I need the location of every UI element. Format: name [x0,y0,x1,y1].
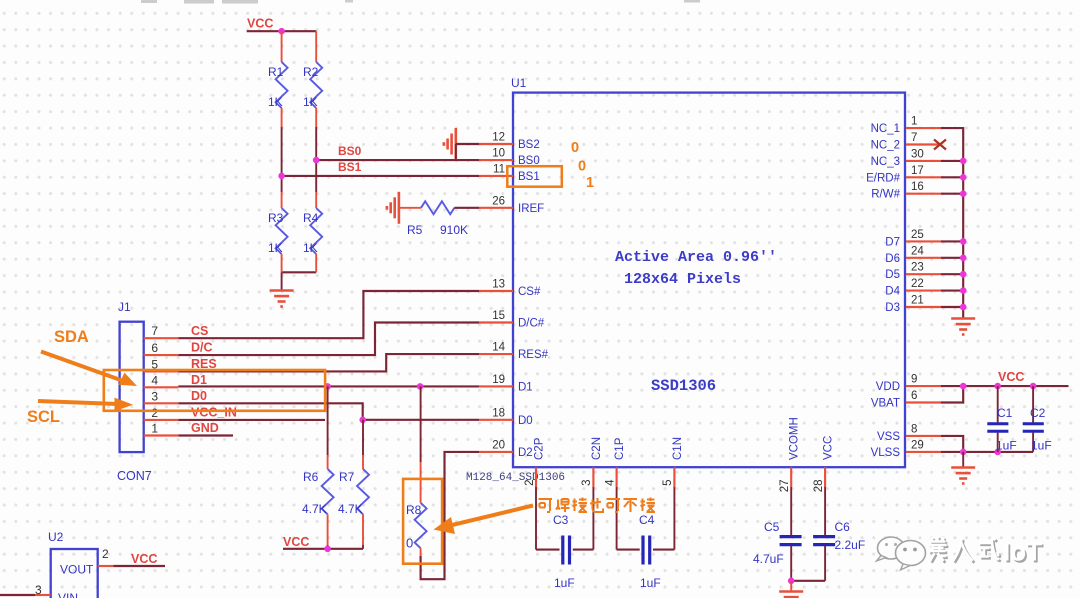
svg-text:128x64 Pixels: 128x64 Pixels [624,271,741,288]
ground (right bus) [951,317,975,320]
svg-text:1uF: 1uF [1031,439,1052,453]
svg-text:C2N: C2N [591,437,603,460]
U1 pin 17 E/RD# [906,176,941,178]
svg-text:BS2: BS2 [518,139,540,151]
wire right pin to bus [941,176,963,178]
node C2/VCC junction [1030,383,1037,390]
svg-text:VDD: VDD [876,381,900,393]
node C1/gnd junction [994,449,1001,456]
U1 pin 1 NC_1 [906,127,941,129]
IC U1 SSD1306 body [513,93,905,468]
J1 pin 2 net VCC_IN [144,419,179,421]
U1 pin 21 D3 [906,306,941,308]
logo chat bubble small [877,537,905,561]
svg-text:D6: D6 [885,253,900,265]
U1 pin 11 BS1 [479,175,513,177]
svg-text:15: 15 [492,310,505,322]
svg-text:910K: 910K [440,223,468,237]
U1 pin 6 VBAT [906,401,941,403]
wire VSS step down to VLSS rail [941,436,963,452]
svg-text:28: 28 [813,480,825,493]
svg-text:R1: R1 [268,65,284,79]
node C5/ground junction [788,578,795,585]
svg-text:4.7K: 4.7K [338,502,363,516]
wire net VCC_IN stub [178,419,325,421]
svg-text:10: 10 [492,148,505,160]
U1 pin 7 NC_2 [906,143,938,145]
svg-text:VCC: VCC [131,552,157,566]
no-connect X on pin 7 NC_2 [934,140,946,150]
node bus junction [960,287,967,294]
U1 pin 3 C2N [592,467,594,487]
svg-text:R3: R3 [268,211,284,225]
wire right pin to bus [941,160,963,162]
svg-text:11: 11 [493,163,505,175]
connector J1 CON7 body [120,322,144,452]
capacitor C5 4.7uF [790,487,792,535]
svg-text:E/RD#: E/RD# [866,172,900,184]
svg-text:0: 0 [571,140,579,156]
svg-text:1K: 1K [303,241,318,255]
svg-text:8: 8 [911,423,917,435]
svg-text:2.2uF: 2.2uF [835,538,866,552]
svg-text:BS1: BS1 [518,171,540,183]
wire net GND stub [178,434,233,436]
resistor R3 1K [281,176,283,192]
U1 pin 4 C1P [616,467,618,487]
svg-text:C4: C4 [639,513,655,527]
resistor R4 1K [315,160,317,192]
wire C5/C6 bottom rail [791,580,825,582]
svg-text:0: 0 [578,159,586,175]
svg-text:Active Area 0.96'': Active Area 0.96'' [615,249,777,266]
node bus junction [960,304,967,311]
svg-text:J1: J1 [118,300,131,314]
svg-text:29: 29 [911,439,924,451]
svg-text:D3: D3 [885,302,900,314]
wire net VCC (VDD rail) [941,385,1069,387]
wire right pin to bus [941,257,963,259]
U2 pin 2 VCC out [98,565,114,567]
svg-text:RES#: RES# [518,349,549,361]
ground symbol (R3/R4 bottom) [281,272,283,289]
svg-text:1uF: 1uF [996,439,1017,453]
svg-text:NC_1: NC_1 [871,123,900,135]
svg-text:VIN: VIN [58,591,78,598]
svg-text:25: 25 [911,229,924,241]
svg-text:21: 21 [911,295,924,307]
svg-text:C1P: C1P [614,437,626,460]
svg-text:VCOMH: VCOMH [789,417,801,460]
svg-text:1K: 1K [303,95,318,109]
svg-text:4.7K: 4.7K [302,502,327,516]
U1 pin 29 VLSS [906,451,941,453]
U1 pin 9 VDD [906,385,941,387]
wire net D0 (J1 to U1) [178,403,479,420]
svg-text:2: 2 [151,406,158,420]
svg-text:D/C#: D/C# [518,318,545,330]
svg-text:SCL: SCL [27,408,60,426]
J1 pin 3 net D0 [144,402,179,404]
svg-text:12: 12 [492,132,505,144]
U1 pin 20 D2 [479,451,513,453]
svg-text:7: 7 [151,324,158,338]
svg-text:VCC: VCC [823,436,835,460]
svg-text:3: 3 [581,480,593,486]
capacitor C6 2.2uF [824,487,826,535]
node D0/R7 junction [359,417,366,424]
wire R2 to BS0 node [315,127,317,160]
wire right pin to bus [941,240,963,242]
wire R3/R4 bottom rail [282,271,317,273]
svg-text:7: 7 [911,132,917,144]
capacitor C3 1uF [535,487,537,550]
svg-text:VOUT: VOUT [60,563,94,577]
resistor R2 1K [315,31,317,62]
node bus junction [960,238,967,245]
highlight box around BS1 pin name [507,166,562,187]
svg-text:17: 17 [911,165,924,177]
U1 pin 22 D4 [906,290,941,292]
J1 pin 5 net RES [144,370,179,372]
resistor R6 4.7K [327,386,329,455]
ground (IREF, rotated) [398,192,401,224]
svg-text:27: 27 [779,480,791,493]
logo text qian-ru-shi (fake hanzi white w/ gray shadow) [930,538,1001,563]
J1 pin 6 net D/C [144,354,179,356]
node bus junction [960,190,967,197]
wire right pin to bus [941,290,963,292]
svg-text:9: 9 [911,374,917,386]
svg-text:GND: GND [191,421,219,435]
U1 pin 15 D/C# [479,321,513,323]
annotation text ke-han-jie-ye-ke-bu-jie (fake hanzi strokes) [539,498,656,513]
node VBAT/VCC junction [960,383,967,390]
svg-text:2: 2 [524,480,536,486]
U1 pin 8 VSS [906,435,941,437]
svg-text:IREF: IREF [518,203,544,215]
svg-text:VBAT: VBAT [871,398,900,410]
U2 pin 3 VIN [35,594,51,596]
svg-text:0: 0 [406,536,413,551]
svg-text:C2P: C2P [534,437,546,460]
node bus junction [960,158,967,165]
svg-text:VSS: VSS [877,431,900,443]
svg-text:C1N: C1N [672,437,684,460]
ground (BS2 pin, rotated) [454,128,457,160]
ground (VSS, right) [962,452,964,467]
ground (bottom center, clipped) [790,581,792,591]
svg-text:VLSS: VLSS [871,447,901,459]
svg-text:D4: D4 [885,286,900,298]
wire net BS1 [282,175,479,177]
wire net D/C (J1 to U1) [178,323,479,356]
svg-text:4: 4 [604,479,616,486]
svg-text:U1: U1 [511,76,527,90]
U1 pin 28 VCC [824,467,826,487]
node VCC-R1 junction [278,28,285,35]
wire R1 to BS1 node [281,127,283,176]
wire net D1 (J1 to U1) [178,385,479,387]
svg-text:C5: C5 [764,520,780,534]
node bus junction [960,174,967,181]
wire right pin to bus [941,273,963,275]
U1 pin 12 BS2 [479,143,513,145]
svg-text:C2: C2 [1030,406,1046,420]
svg-text:BS1: BS1 [338,160,362,174]
svg-text:D0: D0 [518,415,533,427]
wire net CS (J1 to U1) [178,291,479,338]
svg-text:SDA: SDA [54,328,89,346]
svg-text:R4: R4 [303,211,319,225]
wire NC/data bus to ground (right) [941,128,963,317]
svg-text:1: 1 [151,422,158,436]
svg-text:22: 22 [911,278,924,290]
svg-text:1: 1 [586,175,594,191]
svg-text:6: 6 [151,341,158,355]
U1 pin 10 BS0 [479,159,513,161]
U1 pin 19 D1 [479,385,513,387]
wire R8 bottom to D2 [421,452,479,579]
wire net BS0 [316,159,479,161]
svg-text:D5: D5 [885,269,900,281]
node C1/VCC junction [994,383,1001,390]
capacitor C1 1uF [997,386,999,422]
top edge crop artifacts [141,0,700,4]
U1 pin 25 D7 [906,240,941,242]
wire VBAT to VCC rail [941,386,963,402]
svg-text:D1: D1 [191,373,207,387]
resistor R7 4.7K [362,420,364,455]
U1 pin 23 D5 [906,273,941,275]
node D1/R6 junction [324,383,331,390]
U1 pin 30 NC_3 [906,160,941,162]
svg-text:3: 3 [35,583,42,597]
svg-text:1K: 1K [268,241,283,255]
wire net VLSS/ground rail [941,451,1033,453]
arrow SCL to pin D0 [38,401,118,404]
wire BS2 tie to BS0 [455,144,457,160]
svg-text:C3: C3 [553,513,569,527]
resistor R5 910K [399,207,421,209]
U1 pin 13 CS# [479,290,513,292]
U1 pin 18 D0 [479,419,513,421]
U1 pin 5 C1N [673,467,675,487]
node BS1 junction [278,173,285,180]
svg-text:1uF: 1uF [640,576,661,590]
J1 pin 7 net CS [144,337,179,339]
resistor R1 1K [281,31,283,62]
svg-text:C1: C1 [997,406,1013,420]
svg-text:VCC: VCC [247,17,273,31]
arrow annotation to R8 [448,506,533,527]
svg-text:24: 24 [911,245,924,257]
svg-text:M128_64_SSD1306: M128_64_SSD1306 [466,472,565,484]
svg-text:4: 4 [151,373,158,387]
svg-text:SSD1306: SSD1306 [651,377,716,395]
svg-text:R2: R2 [303,65,319,79]
svg-text:CS: CS [191,324,208,338]
node BS0 junction [313,157,320,164]
svg-text:D0: D0 [191,389,207,403]
svg-text:VCC_IN: VCC_IN [191,406,237,420]
svg-text:30: 30 [911,148,924,160]
svg-text:BS0: BS0 [338,144,362,158]
wire right pin to bus [941,306,963,308]
U1 pin 2 C2P [535,467,537,487]
svg-text:20: 20 [492,439,505,451]
svg-text:CON7: CON7 [117,469,152,483]
resistor R8 0 ohm [420,386,422,462]
svg-text:D/C: D/C [191,341,213,355]
svg-text:18: 18 [492,407,505,419]
U1 pin 26 IREF [479,207,513,209]
wire net RES (J1 to U1) [178,354,479,371]
highlight box around R8 [403,479,442,564]
U1 pin 27 VCOMH [790,467,792,487]
svg-text:R/W#: R/W# [871,189,900,201]
svg-text:14: 14 [492,342,505,354]
svg-text:CS#: CS# [518,286,541,298]
svg-text:R5: R5 [407,223,423,237]
U1 pin 16 R/W# [906,193,941,195]
svg-text:U2: U2 [48,530,64,544]
U1 pin 24 D6 [906,257,941,259]
node bus junction [960,254,967,261]
svg-text:C6: C6 [835,520,851,534]
U1 pin 14 RES# [479,353,513,355]
svg-text:2: 2 [102,547,109,561]
svg-text:R6: R6 [303,470,319,484]
svg-text:D2: D2 [518,447,533,459]
svg-text:NC_2: NC_2 [871,140,900,152]
capacitor C2 1uF [1032,386,1034,422]
arrow SDA to pin D1 [41,352,124,382]
wire right pin to bus [941,193,963,195]
svg-text:13: 13 [492,279,505,291]
capacitor C4 1uF [616,487,618,550]
node VSS/VLSS junction [960,449,967,456]
svg-text:1K: 1K [268,95,283,109]
svg-text:23: 23 [911,262,924,274]
svg-text:VCC: VCC [283,535,309,549]
svg-text:VCC: VCC [998,370,1024,384]
J1 pin 1 net GND [144,434,179,436]
highlight box around J1 D1/D0 rows [104,370,325,411]
svg-text:IoT: IoT [1003,537,1042,567]
node D1/R8 junction [417,383,424,390]
svg-text:5: 5 [662,480,674,486]
svg-text:D7: D7 [885,236,900,248]
svg-text:26: 26 [492,195,505,207]
svg-text:19: 19 [492,374,505,386]
J1 pin 4 net D1 [144,386,179,388]
IC U2 body [51,549,98,598]
node bus junction [960,271,967,278]
svg-text:NC_3: NC_3 [871,156,900,168]
svg-text:3: 3 [151,389,158,403]
svg-text:4.7uF: 4.7uF [753,552,784,566]
svg-text:R7: R7 [339,470,355,484]
svg-text:D1: D1 [518,381,533,393]
svg-text:16: 16 [911,181,924,193]
svg-text:R8: R8 [406,503,422,517]
svg-text:6: 6 [911,390,917,402]
svg-text:1: 1 [911,116,917,128]
logo chat bubble big [896,541,926,571]
svg-text:1uF: 1uF [554,576,575,590]
node VCC/R6 junction [324,546,331,553]
